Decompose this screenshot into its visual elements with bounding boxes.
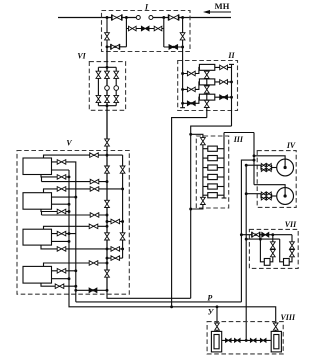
- valve VI bottom-mid: [105, 95, 110, 102]
- svg-text:P: P: [207, 293, 212, 302]
- node right bottom tee: [181, 46, 184, 49]
- svg-text:VIII: VIII: [281, 313, 296, 322]
- filter element 1 block III: [208, 146, 218, 151]
- node У/tank1 tee: [216, 305, 219, 308]
- node mid2/vA: [68, 203, 71, 206]
- valve discharge pump4: [57, 269, 66, 274]
- wire III left manifold: [202, 145, 204, 198]
- wire II outlet1: [215, 66, 232, 68]
- node e1/vM: [106, 180, 109, 183]
- valve vM 3: [105, 233, 110, 240]
- wire VII drop1: [260, 239, 264, 262]
- main pump unit 1 block V: [23, 158, 52, 175]
- filter element 4 block III: [208, 174, 218, 179]
- wire II outlet3: [215, 96, 232, 98]
- wire main vertical through VI: [106, 47, 108, 151]
- valve VI top-mid: [105, 71, 110, 78]
- valve suction pump2 a: [57, 187, 66, 192]
- label VI: [77, 52, 86, 61]
- tank T2 outer shell: [271, 331, 281, 352]
- wire VII drop2: [280, 239, 284, 262]
- node VI bottom manifold: [106, 104, 109, 107]
- valve bypass 3: [154, 26, 162, 31]
- node mid4/vA: [68, 277, 71, 280]
- wire II right manifold: [231, 64, 233, 126]
- wire III filter6 stubs: [203, 194, 208, 196]
- valve left bottom cross: [111, 45, 120, 50]
- wire extra line e2: [42, 214, 108, 216]
- wire collector line У: [69, 170, 276, 331]
- wire III filter3 stubs: [203, 167, 208, 169]
- instrument circle VI mid: [105, 86, 110, 91]
- valve suction pump3: [89, 224, 98, 229]
- label VIII: [281, 313, 296, 322]
- valve on main line right of block I: [169, 15, 179, 20]
- node bottom4/vB: [74, 285, 77, 288]
- main pump unit 3 block V: [23, 229, 52, 245]
- wire mid pump3: [52, 240, 70, 242]
- wire bottom pump4: [41, 283, 76, 286]
- wire suction pump2: [44, 189, 123, 193]
- node discharge3/vA: [68, 232, 71, 235]
- valve suction pump1: [90, 153, 99, 158]
- wire tank transfer line: [222, 339, 272, 341]
- valve vM 1: [105, 166, 110, 173]
- wire C-line vertical: [245, 165, 247, 340]
- wire link pump1 riser: [41, 177, 43, 182]
- wire II branch1: [183, 67, 200, 73]
- node II branch3: [181, 102, 184, 105]
- valve vM 4: [105, 270, 110, 277]
- valve e1: [90, 179, 99, 184]
- valve II below F3: [204, 100, 209, 107]
- wire II outlet2: [215, 81, 232, 83]
- wire lineB elbow: [241, 160, 254, 302]
- valve bottom pump1: [57, 175, 66, 180]
- instrument circle VI right: [114, 86, 119, 91]
- drain pot 1 block VII: [264, 259, 270, 266]
- node B-line header tee: [240, 233, 243, 236]
- wire vN manifold: [122, 155, 124, 258]
- wire cross row r2: [107, 257, 123, 259]
- node r1/vM: [106, 220, 109, 223]
- filter F3 block II: [199, 94, 214, 100]
- valve bottom pump3 a: [57, 247, 66, 252]
- node bottom2/vA: [68, 210, 71, 213]
- drain pot 2 block VII: [284, 259, 290, 266]
- valve block pump1 (dual parallel valves): [260, 165, 262, 170]
- wire III top link: [191, 134, 203, 137]
- wire II branch3: [183, 97, 200, 103]
- node main/right inner branch: [162, 16, 165, 19]
- pump P2 block IV: [277, 188, 294, 205]
- node VI top manifold: [106, 66, 109, 69]
- label V: [66, 139, 72, 148]
- filter F2 block II: [199, 79, 214, 85]
- wire mid pump4: [52, 278, 70, 280]
- wire collector line1 (to II): [107, 290, 191, 298]
- svg-text:II: II: [227, 51, 235, 60]
- wire VII header2: [246, 238, 280, 240]
- block VII dashed boundary: [249, 229, 298, 268]
- valve e2: [90, 213, 99, 218]
- valve bottom pump4: [55, 284, 64, 289]
- label IV: [286, 141, 296, 150]
- wire IV pump2 suction feed: [246, 193, 261, 195]
- node main/left inner branch: [125, 16, 128, 19]
- wire VII header1: [241, 234, 292, 236]
- wire discharge pump2: [52, 196, 76, 198]
- node suction3/vM: [106, 225, 109, 228]
- tank T1 inner: [214, 335, 219, 349]
- valve VI bottom-left: [96, 95, 101, 102]
- node main/left branch: [106, 16, 109, 19]
- valve left branch (gate): [105, 33, 110, 40]
- valve VII chain2 upper: [290, 242, 295, 249]
- wire right inner vertical: [163, 18, 165, 48]
- valve II outlet2: [220, 80, 228, 85]
- valve bypass 2 (check): [141, 26, 149, 31]
- valve discharge pump3: [57, 231, 66, 236]
- node IV lineB tee: [253, 159, 256, 162]
- valve on main line left of block I: [112, 15, 122, 20]
- wire main pipeline МН (top header): [58, 17, 140, 19]
- label VII: [285, 220, 297, 229]
- block VIII dashed boundary: [207, 322, 283, 354]
- valve transfer 2: [235, 339, 241, 343]
- valve vM 2: [105, 200, 110, 207]
- wire II drain exit to У line: [172, 118, 207, 307]
- block VI dashed boundary: [89, 62, 125, 111]
- wire VI right branch: [115, 67, 117, 105]
- main pump unit 2 block V: [23, 193, 52, 210]
- node e4/vB: [74, 289, 77, 292]
- valve II outlet3: [220, 95, 228, 100]
- valve VII chain1 lower: [270, 250, 275, 257]
- wire II inter-filter vertical: [206, 70, 208, 117]
- wire cross row r1: [107, 221, 123, 223]
- wire II left manifold: [182, 61, 184, 108]
- valve II between F1-F2: [204, 71, 209, 78]
- wire III filter2 stubs: [203, 157, 208, 159]
- valve transfer 1: [226, 339, 232, 343]
- valve right bottom cross: [169, 45, 178, 50]
- wire VI left branch: [97, 67, 99, 105]
- svg-text:МН: МН: [215, 1, 230, 11]
- wire bypass middle line: [126, 28, 163, 30]
- node У/II-drain tee: [170, 305, 173, 308]
- wire IV pump2 stem: [254, 185, 285, 188]
- svg-text:IV: IV: [286, 141, 296, 150]
- wire suction pump1: [44, 155, 123, 158]
- wire bottom pump2: [41, 209, 69, 211]
- disconnect circle left: [136, 16, 140, 20]
- block IV dashed boundary: [257, 151, 296, 208]
- valve cross r2: [111, 256, 120, 261]
- node r1/vN: [121, 220, 124, 223]
- valve suction pump4: [89, 261, 98, 266]
- cap II right manifold: [229, 63, 234, 65]
- wire IV pump1 stem: [254, 156, 285, 159]
- node IV pump1 stem tee: [253, 154, 256, 157]
- wire II right manifold elbow to III: [191, 126, 232, 298]
- filter element 3 block III: [208, 165, 218, 170]
- wire tank1 feed: [216, 307, 218, 332]
- valve VI top-right: [114, 71, 119, 78]
- node III feed top tee: [189, 133, 192, 136]
- wire mid pump2: [52, 203, 70, 205]
- valve discharge pump1: [57, 160, 66, 165]
- node suction4/vM: [106, 262, 109, 265]
- pump P1 block IV: [277, 159, 294, 176]
- valve vM above box (gate): [105, 139, 110, 146]
- wire III filter4 stubs: [203, 176, 208, 178]
- valve II between F2-F3: [204, 86, 209, 93]
- node C-line top: [245, 164, 248, 167]
- wire left inner vertical: [125, 18, 127, 47]
- node suction2/vN: [121, 187, 124, 190]
- node bottom3/vN: [121, 247, 124, 250]
- node VII header1 tee: [271, 233, 274, 236]
- valve transfer 4: [260, 339, 266, 343]
- node r2/vM: [106, 257, 109, 260]
- wire VII chain1: [270, 235, 273, 262]
- valve III bottom (gate): [201, 197, 206, 204]
- filter element 5 block III: [208, 184, 218, 189]
- wire III filter1 stubs: [203, 148, 208, 150]
- node III feed bottom tee: [189, 208, 192, 211]
- wire extra line e4: [76, 289, 107, 291]
- disconnect circle right: [149, 16, 153, 20]
- wire discharge pump3: [52, 233, 76, 235]
- wire right branch vertical: [182, 18, 184, 61]
- block II dashed boundary: [178, 61, 238, 111]
- valve transfer 3: [250, 339, 256, 343]
- valve VII header1 a: [252, 232, 260, 237]
- wire VI bottom manifold: [98, 105, 116, 107]
- valve III top (gate): [201, 138, 206, 145]
- tank T2 inner: [274, 335, 279, 349]
- valve suction pump2 b: [90, 187, 99, 192]
- block I dashed boundary: [102, 11, 191, 52]
- block V dashed boundary: [17, 151, 129, 295]
- node II branch1: [181, 72, 184, 75]
- wire vM manifold lower: [106, 151, 108, 290]
- main pump unit 4 block V: [23, 266, 52, 283]
- wire suction pump3: [44, 226, 108, 229]
- wire suction pump4: [44, 263, 108, 266]
- node discharge2/vB: [74, 196, 77, 199]
- label МН: [215, 1, 230, 11]
- valve VI bottom-right: [114, 95, 119, 102]
- node II outlet2 tee: [230, 80, 233, 83]
- filter F1 block II: [199, 64, 214, 70]
- wire IV feed vertical: [253, 133, 255, 185]
- svg-text:V: V: [66, 139, 72, 148]
- valve e4: [89, 288, 97, 293]
- svg-text:VII: VII: [285, 220, 297, 229]
- wire III feed to IV: [224, 132, 254, 134]
- wire left bottom cross: [107, 46, 126, 48]
- wire collector line P: [76, 301, 242, 303]
- wire discharge pump1: [52, 162, 76, 302]
- valve VI top-left: [96, 71, 101, 78]
- label У: [208, 308, 215, 317]
- wire left branch vertical: [106, 18, 108, 47]
- wire bottom pump1: [41, 175, 69, 177]
- label P: [207, 293, 212, 302]
- wire IV pump1 suction feed: [246, 164, 261, 166]
- node VII header2 tee: [259, 238, 262, 241]
- node II branch2: [181, 88, 184, 91]
- label I: [144, 2, 149, 11]
- filter element 2 block III: [208, 156, 218, 161]
- node discharge4/vB: [74, 269, 77, 272]
- label II: [227, 51, 235, 60]
- node main/right branch: [181, 16, 184, 19]
- node C-line pump2 tee: [245, 192, 248, 195]
- filter element 6 block III: [208, 193, 218, 198]
- svg-text:III: III: [233, 135, 244, 144]
- wire right bottom cross: [164, 46, 183, 48]
- wire extra line e1: [42, 181, 108, 183]
- node e4/vM: [106, 289, 109, 292]
- flow arrow МН: [207, 11, 231, 13]
- wire III bottom link: [191, 205, 203, 210]
- valve right branch (gate): [180, 33, 185, 40]
- valve VII chain1 upper: [270, 242, 275, 249]
- valve vN 1: [120, 166, 125, 173]
- tank T1 outer shell: [211, 331, 221, 352]
- node transfer/C-line: [245, 339, 248, 342]
- valve tank2 (gate): [273, 323, 278, 330]
- valve II branch3: [187, 101, 195, 106]
- valve bypass 1: [129, 26, 137, 31]
- svg-text:У: У: [208, 308, 215, 317]
- valve II branch2: [187, 87, 195, 92]
- label III: [233, 135, 244, 144]
- cap II left manifold: [180, 107, 185, 109]
- svg-text:VI: VI: [77, 52, 86, 61]
- wire VII chain2: [289, 235, 292, 262]
- node suction1/vM: [106, 154, 109, 157]
- wire III right manifold: [223, 133, 225, 199]
- node II outlet3 tee: [230, 96, 233, 99]
- wire mid pump1: [52, 169, 70, 171]
- node e2/vM: [106, 214, 109, 217]
- wire VI top manifold: [98, 66, 116, 68]
- node bottom3/vM: [106, 247, 109, 250]
- wire discharge pump4: [52, 270, 76, 272]
- wire III filter5 stubs: [203, 186, 208, 188]
- valve II branch1: [187, 71, 195, 76]
- valve vN 2: [120, 233, 125, 240]
- valve II outlet1: [220, 65, 228, 70]
- valve bottom pump2: [57, 209, 66, 214]
- valve block pump2 (dual parallel valves): [260, 194, 262, 199]
- node left bottom tee: [106, 45, 109, 48]
- valve tank1 (gate): [215, 323, 220, 330]
- wire II branch2: [183, 82, 200, 90]
- wire link pump2 riser: [41, 212, 43, 216]
- node VII header2 start: [245, 238, 248, 241]
- valve VII chain2 lower: [290, 250, 295, 257]
- valve VII header1 b (check): [262, 232, 269, 237]
- block III dashed boundary: [196, 136, 228, 208]
- node bottom1/vA: [68, 175, 71, 178]
- node mid3/vA: [68, 240, 71, 243]
- cap III right manifold: [222, 197, 227, 199]
- valve bottom pump3 b: [111, 247, 120, 252]
- wire bottom pump3: [41, 245, 123, 249]
- valve cross r1: [111, 219, 120, 224]
